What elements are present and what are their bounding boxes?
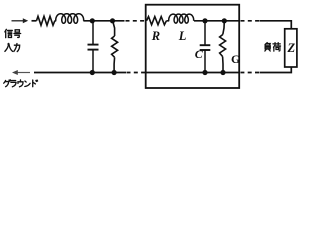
- resistor (shunt, input section): [112, 21, 118, 73]
- node (top of shunt capacitor): [90, 18, 95, 23]
- 荷: [273, 43, 281, 51]
- wire: [32, 20, 37, 22]
- wire: [83, 20, 124, 22]
- node (top of G): [222, 18, 227, 23]
- resistor G (in box): [220, 21, 226, 73]
- unit-cell box: [146, 5, 240, 88]
- label 信号 (signal): [5, 29, 21, 37]
- resistor (series, input line): [37, 16, 55, 25]
- wire (dashed, bottom right): [241, 72, 260, 74]
- wire (dashed, top right): [241, 20, 260, 22]
- capacitor C (in box): [200, 21, 211, 73]
- capacitor (shunt, input section): [88, 21, 99, 73]
- 力: [14, 44, 20, 52]
- 負: [265, 43, 267, 45]
- svg-text:Z: Z: [287, 41, 296, 55]
- svg-text:L: L: [178, 29, 187, 43]
- resistor R (in box): [147, 17, 167, 25]
- wire: [55, 20, 57, 22]
- 信: [5, 29, 6, 32]
- ラ: [11, 81, 16, 87]
- svg-text:G: G: [231, 52, 240, 66]
- node (bottom of capacitor): [90, 70, 95, 75]
- node (bottom of G): [220, 70, 225, 75]
- inductor L (in box): [166, 14, 193, 23]
- node (bottom of C): [202, 70, 207, 75]
- label 入力 (input): [5, 43, 20, 51]
- wire (load to bottom): [260, 67, 292, 73]
- 入: [5, 43, 9, 51]
- label 負荷 (load): [265, 43, 281, 52]
- wire (top right to load): [260, 21, 292, 29]
- ド: [33, 80, 38, 87]
- load impedance Z box: [285, 29, 297, 67]
- wire (dashed, bottom left): [127, 72, 146, 74]
- node (bottom of resistor): [112, 70, 117, 75]
- node (top of shunt resistor): [110, 18, 115, 23]
- inductor (series, input line): [56, 14, 84, 24]
- ウ: [18, 80, 23, 87]
- ground wire (bottom): [34, 72, 126, 74]
- ン: [25, 81, 30, 86]
- node (top of C): [202, 18, 207, 23]
- signal input arrow: [12, 18, 29, 23]
- wire (dashed, top left): [126, 20, 146, 22]
- wire (box, top): [194, 20, 239, 22]
- wire (box, bottom): [147, 72, 239, 74]
- グ: [4, 80, 6, 83]
- label グラウンド (ground): [4, 80, 38, 87]
- svg-text:R: R: [151, 29, 160, 43]
- svg-text:C: C: [195, 47, 204, 61]
- 号: [14, 30, 21, 38]
- ground arrow (points left): [12, 70, 30, 75]
